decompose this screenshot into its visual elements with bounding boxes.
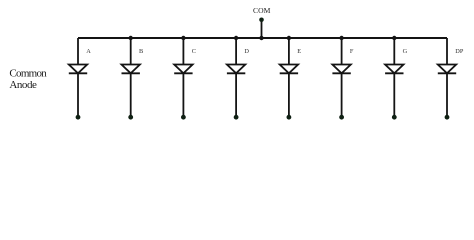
junction: branch G to rail (392, 36, 396, 40)
terminal node DP (445, 115, 450, 120)
junction: branch F to rail (339, 36, 343, 40)
wire: common anode rail (78, 37, 447, 39)
wire: cathode of segment DP (446, 73, 448, 117)
terminal node G (392, 115, 397, 120)
diode segment DP (438, 65, 456, 74)
wire: anode of segment C (182, 38, 184, 65)
terminal node A (76, 115, 81, 120)
wire: anode of segment B (130, 38, 132, 65)
svg-text:DP: DP (455, 48, 464, 55)
svg-text:A: A (86, 48, 91, 55)
wire: anode of segment D (235, 38, 237, 65)
terminal node F (339, 115, 344, 120)
svg-text:Common: Common (9, 67, 47, 79)
wire: anode of segment F (341, 38, 343, 65)
wire: cathode of segment D (235, 73, 237, 117)
wire: cathode of segment G (393, 73, 395, 117)
wire: anode of segment G (393, 38, 395, 65)
wire: anode of segment A (77, 38, 79, 65)
diode segment G (385, 65, 403, 74)
terminal COM (259, 18, 264, 23)
junction: branch D to rail (234, 36, 238, 40)
wire: anode of segment E (288, 38, 290, 65)
diode segment B (122, 65, 140, 74)
diode segment D (227, 65, 245, 74)
svg-text:B: B (139, 48, 143, 55)
junction: COM stub to rail (259, 36, 263, 40)
svg-text:F: F (350, 48, 354, 55)
junction: branch E to rail (287, 36, 291, 40)
diode segment A (69, 65, 87, 74)
wire: anode of segment DP (446, 38, 448, 65)
terminal node D (234, 115, 239, 120)
terminal node C (181, 115, 186, 120)
wire: cathode of segment B (130, 73, 132, 117)
svg-text:C: C (192, 48, 196, 55)
wire: cathode of segment E (288, 73, 290, 117)
diode segment C (174, 65, 192, 74)
svg-text:E: E (297, 48, 301, 55)
junction: branch B to rail (129, 36, 133, 40)
diode segment E (280, 65, 298, 74)
svg-text:G: G (403, 48, 408, 55)
svg-text:Anode: Anode (9, 79, 37, 91)
terminal node E (287, 115, 292, 120)
terminal node B (128, 115, 133, 120)
label Common Anode (9, 67, 47, 90)
wire: COM stub (261, 20, 263, 38)
wire: cathode of segment C (182, 73, 184, 117)
wire: cathode of segment F (341, 73, 343, 117)
junction: branch C to rail (181, 36, 185, 40)
diode segment F (332, 65, 350, 74)
wire: cathode of segment A (77, 73, 79, 117)
svg-text:COM: COM (253, 6, 271, 15)
svg-text:D: D (244, 48, 249, 55)
